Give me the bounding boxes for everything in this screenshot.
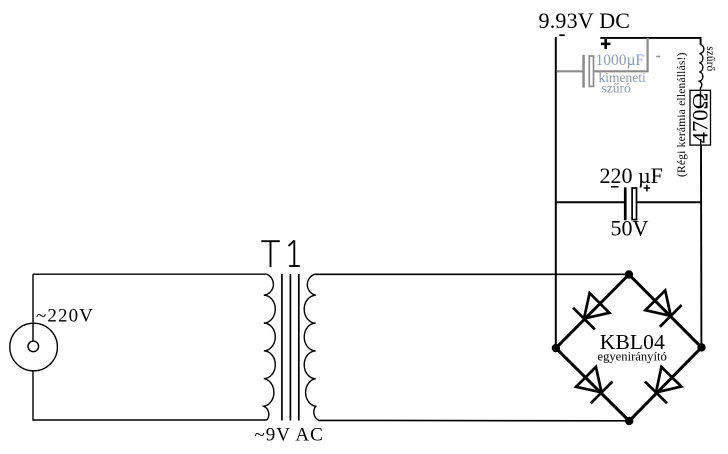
gray dash mark bbox=[656, 56, 660, 58]
node right (junction dot) bbox=[697, 343, 705, 351]
bridge edge bottom-left bbox=[556, 348, 629, 421]
svg-text:~220V: ~220V bbox=[36, 306, 94, 327]
svg-text:~9V AC: ~9V AC bbox=[255, 425, 324, 446]
wire: right rail (resistor to bridge) bbox=[700, 145, 702, 347]
capacitor C2 220µF plates bbox=[624, 187, 637, 220]
label egyenirányító bbox=[598, 349, 667, 363]
diode D3 (bottom-left edge) bbox=[576, 367, 612, 403]
label 220 µF bbox=[600, 163, 663, 188]
capacitor C1 1000µF plates (gray) bbox=[582, 55, 593, 88]
svg-text:470Ω: 470Ω bbox=[688, 93, 713, 143]
wire: primary left vertical (bottom) bbox=[32, 371, 34, 421]
label szűró (gray) bbox=[602, 80, 631, 95]
svg-text:220 µF: 220 µF bbox=[600, 163, 663, 188]
svg-text:egyenirányító: egyenirányító bbox=[598, 349, 667, 363]
svg-text:(Régi kerámia ellenállás!): (Régi kerámia ellenállás!) bbox=[676, 52, 688, 177]
label kimeneti (gray) bbox=[599, 70, 646, 85]
svg-text:szűrő: szűrő bbox=[704, 46, 716, 71]
label ~220V bbox=[36, 306, 94, 327]
svg-text:1000µF: 1000µF bbox=[596, 52, 645, 69]
wire: primary top horizontal bbox=[33, 273, 267, 275]
label 9.93V DC bbox=[539, 8, 631, 33]
wire: negative rail (left vertical) bbox=[555, 37, 557, 348]
AC source V1 bbox=[10, 323, 58, 371]
capacitor C2 220µF wire left bbox=[556, 201, 624, 203]
wire: secondary bottom to bridge bbox=[318, 419, 629, 421]
bridge edge top-left bbox=[556, 275, 629, 349]
diode D4 (bottom-right edge) bbox=[645, 367, 681, 403]
capacitor C2 220µF wire right bbox=[637, 201, 702, 203]
wire: positive top rail bbox=[600, 38, 700, 45]
wire: primary bottom horizontal bbox=[33, 419, 267, 421]
svg-text:szűró: szűró bbox=[602, 80, 631, 95]
node left (junction dot) bbox=[552, 344, 560, 352]
capacitor C1 1000µF gray wire right and up to rail bbox=[594, 38, 648, 71]
wire: secondary top to bridge bbox=[314, 273, 629, 275]
transformer T1 primary winding bbox=[264, 274, 276, 420]
svg-text:50V: 50V bbox=[611, 216, 649, 241]
label plus (C2) bbox=[644, 185, 651, 192]
label (Régi kerámia ellenállás!) (vertical) bbox=[676, 52, 688, 177]
label ~9V AC bbox=[255, 425, 324, 446]
label plus (DC output) bbox=[601, 39, 611, 49]
label minus (C2) bbox=[611, 186, 619, 188]
label 1000µF (gray) bbox=[596, 52, 645, 69]
capacitor C1 1000µF gray wire left bbox=[557, 70, 583, 72]
node bottom (junction dot) bbox=[625, 417, 633, 425]
bridge edge bottom-right bbox=[629, 347, 701, 421]
label 470Ω (vertical) bbox=[688, 93, 713, 143]
transformer T1 core bbox=[282, 274, 299, 421]
resistor R1 470 ohm bbox=[690, 90, 711, 145]
label KBL04 bbox=[600, 330, 665, 354]
label T1 bbox=[261, 240, 299, 267]
svg-text:9.93V DC: 9.93V DC bbox=[539, 8, 631, 33]
inductor L1 filter choke bbox=[699, 45, 703, 91]
bridge edge top-right bbox=[629, 275, 702, 348]
label minus (DC output) bbox=[559, 34, 564, 36]
diode D1 (top-left edge) bbox=[573, 293, 609, 329]
diode D2 (top-right edge) bbox=[645, 290, 681, 326]
wire: primary left vertical (top) bbox=[32, 274, 34, 324]
label 50V bbox=[611, 216, 649, 241]
label szűrő (vertical) bbox=[704, 46, 716, 71]
transformer T1 secondary winding bbox=[304, 274, 318, 420]
node top (junction dot) bbox=[625, 270, 633, 278]
